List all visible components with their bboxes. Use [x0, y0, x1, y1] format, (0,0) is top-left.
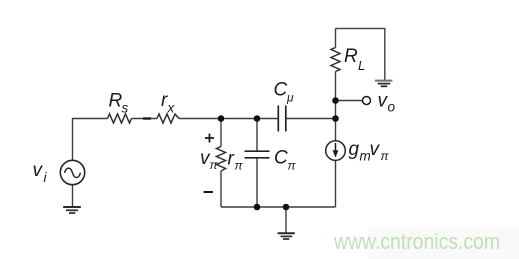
svg-text:www.cntronics.com: www.cntronics.com	[333, 229, 500, 254]
svg-text:g: g	[349, 139, 360, 160]
resistor rpi	[217, 147, 226, 172]
source vi (sine voltage source)	[60, 160, 84, 184]
wire: vo output stub	[336, 100, 363, 102]
label - (vpi polarity minus)	[204, 191, 214, 193]
wire: bottom emitter net	[221, 206, 336, 208]
svg-text:s: s	[122, 101, 129, 116]
resistor rx	[157, 114, 179, 123]
ground (bottom middle)	[278, 233, 295, 239]
svg-text:v: v	[33, 160, 44, 181]
wire: top net RL to ground	[336, 29, 385, 81]
svg-text:π: π	[381, 149, 390, 163]
node (junction dot Cpi top)	[254, 115, 261, 122]
svg-text:L: L	[358, 58, 365, 73]
ground (below vi)	[63, 207, 81, 213]
svg-text:o: o	[388, 100, 396, 115]
capacitor Cpi	[245, 151, 270, 158]
wire: ground stem on bottom net	[285, 207, 287, 233]
label + (vpi polarity plus)	[205, 134, 214, 143]
capacitor Cmu	[278, 106, 286, 132]
node (junction dot bottom Cpi)	[254, 204, 261, 211]
wire: Cpi branch vertical	[256, 119, 258, 152]
svg-text:v: v	[370, 139, 381, 160]
node C (junction dot collector at main wire)	[332, 115, 339, 122]
svg-text:μ: μ	[286, 91, 294, 105]
svg-text:R: R	[109, 91, 123, 112]
svg-text:C: C	[274, 80, 288, 101]
node (junction dot bottom ground)	[283, 204, 290, 211]
watermark background band	[368, 228, 519, 259]
svg-text:i: i	[44, 170, 48, 185]
wire: collector vertical (RL to current source)	[335, 29, 337, 48]
svg-text:x: x	[167, 101, 176, 116]
resistor Rs	[108, 114, 132, 123]
resistor RL	[331, 48, 340, 72]
svg-text:π: π	[210, 158, 219, 172]
svg-text:r: r	[228, 149, 235, 170]
node (junction dot collector at vo tap)	[332, 97, 339, 104]
wire: rpi branch vertical	[220, 119, 222, 147]
svg-text:C: C	[274, 148, 288, 169]
wire: main horizontal input net (vi top to B node)	[73, 119, 336, 161]
svg-text:π: π	[235, 159, 244, 173]
svg-text:π: π	[288, 159, 297, 173]
wire: break dash between Rs and rx	[143, 117, 151, 119]
node B (junction dot rpi top)	[218, 115, 225, 122]
current source gm*vpi	[326, 141, 346, 161]
svg-text:R: R	[344, 46, 358, 67]
wire: vi bottom to ground	[72, 185, 74, 207]
ground (top right)	[375, 81, 393, 87]
terminal vo (open circle)	[363, 97, 371, 105]
